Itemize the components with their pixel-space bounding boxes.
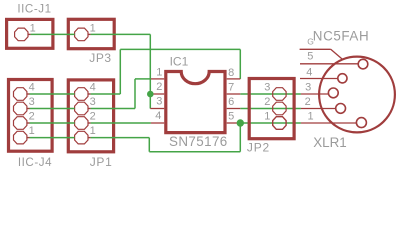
junction dot at IC1 pin 5 [237,119,244,126]
svg-text:3: 3 [156,95,162,107]
wire net C: JP1.3 to vertical [91,108,135,110]
wire IIC-J4.2 to JP1.2 [30,122,75,124]
IC1 pin 7 [227,81,241,94]
svg-text:IC1: IC1 [170,54,189,68]
svg-text:8: 8 [228,67,234,79]
svg-text:G: G [307,36,314,46]
wire net B: JP1.4 to corner [91,93,121,95]
pin 1 of JP1 [75,125,96,144]
XLR1 shell pin G [300,36,343,59]
wire net A: vertical down to IC1 pin 3 [149,34,151,108]
XLR1 pin 5 [300,50,368,69]
wire net A: JP3 pin to vertical column [91,33,151,35]
pin 2 of JP2 [264,96,286,115]
XLR1 housing circle [313,29,395,151]
wire net B: top horizontal to IC1 pin 8 column [120,48,240,50]
wire net C: vertical up [134,79,136,109]
wire IC1.5 to JP2.1 [240,122,301,124]
op IC1 outline with notch [166,54,228,149]
IC1 pin 5 [227,110,241,123]
svg-text:5: 5 [228,110,234,122]
svg-text:NC5FAH: NC5FAH [313,29,369,44]
svg-text:3: 3 [264,81,270,93]
junction dot at IC1 pin 2 [147,91,154,98]
pin 1 of JP3 [75,22,96,40]
pin 1 of IIC-J4 [14,125,35,144]
svg-text:3: 3 [305,81,311,93]
svg-text:4: 4 [29,81,35,93]
svg-text:4: 4 [155,110,161,122]
connector JP1 [68,80,113,169]
svg-text:2: 2 [29,110,35,122]
XLR1 pin 1 [301,110,367,127]
wire IIC-J4.1 to JP1.1 [30,137,75,139]
pin 4 of JP1 [75,81,96,100]
wire net B: vertical down to IC1 pin 8 [239,49,241,79]
connector IIC-J1 [7,3,53,49]
wire net E: JP1.1 bottom run [91,137,150,139]
pin 1 of IIC-J1 [15,22,36,40]
wire net C: horizontal to IC1 pin 1 [135,78,151,80]
wire net E: vertical down [148,138,150,152]
wire net D: JP1.2 to IC1 pin 4 [91,122,151,124]
IC1 pin 8 [227,67,241,79]
svg-text:2: 2 [90,110,96,122]
svg-text:JP3: JP3 [89,51,111,65]
pin 3 of JP2 [264,81,286,100]
svg-text:1: 1 [156,66,162,78]
svg-text:4: 4 [306,67,312,79]
pin 4 of IIC-J4 [14,81,35,100]
pin 1 of JP2 [264,110,286,129]
svg-text:4: 4 [90,81,96,93]
svg-text:1: 1 [308,110,314,122]
svg-text:3: 3 [29,96,35,108]
XLR1 pin 3 [301,81,338,97]
svg-text:2: 2 [156,81,162,93]
svg-text:1: 1 [90,22,96,34]
svg-text:XLR1: XLR1 [313,135,347,150]
svg-text:7: 7 [228,81,234,93]
svg-text:SN75176: SN75176 [169,134,228,149]
svg-text:2: 2 [264,96,270,108]
IC1 pin 1 [151,66,164,79]
IC1 pin 2 [150,81,164,94]
IC1 pin 6 [227,96,241,109]
connector IIC-J4 [9,80,53,170]
svg-text:5: 5 [307,50,313,62]
pin 3 of JP1 [75,96,96,115]
IC1 pin 4 [151,110,164,123]
svg-text:2: 2 [305,96,311,108]
svg-text:6: 6 [228,96,234,108]
svg-text:IIC-J1: IIC-J1 [17,3,51,16]
wire IIC-J4.4 to JP1.4 [30,93,75,95]
svg-text:JP2: JP2 [247,141,270,155]
wire net E: vertical up to junction [239,123,241,152]
XLR1 pin 4 [300,67,347,83]
wire IC1.7 to JP2.3 [240,93,301,95]
wire IC1.6 to JP2.2 [240,108,301,110]
svg-text:3: 3 [90,96,96,108]
pin 3 of IIC-J4 [14,96,35,115]
svg-text:IIC-J4: IIC-J4 [18,156,52,169]
svg-text:JP1: JP1 [90,155,113,169]
connector JP2 [247,79,294,155]
pin 2 of JP1 [75,110,96,129]
wire net A: IIC-J1 pin to JP3 pin [31,33,75,35]
XLR1 pin 2 [301,96,346,113]
pin 2 of IIC-J4 [14,110,35,129]
wire net E: bottom horizontal under IC1 [149,151,240,153]
svg-text:1: 1 [90,125,96,137]
IC1 pin 3 [150,95,164,108]
svg-text:1: 1 [29,125,35,137]
wire IIC-J4.3 to JP1.3 [30,108,75,110]
connector JP3 [68,19,114,65]
wire net B: vertical up [119,49,121,94]
svg-text:1: 1 [264,110,270,122]
svg-text:1: 1 [30,22,36,34]
